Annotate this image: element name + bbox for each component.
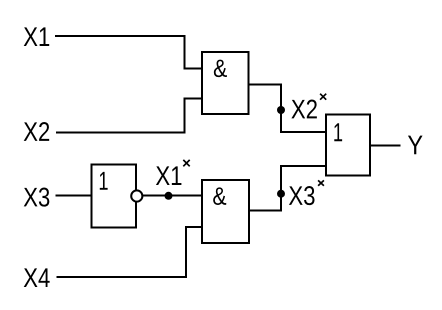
OR gate D4 symbol 1: [334, 123, 342, 141]
node label X3 superscript x: [289, 186, 315, 205]
NOT gate D2 inversion bubble: [131, 190, 142, 201]
output label Y: [408, 136, 423, 155]
wire X3 to NOT gate D2: [55, 195, 91, 197]
AND gate D1 body: [202, 52, 249, 114]
input label X3: [24, 188, 50, 207]
wire NOT gate output to AND gate D3 input 1: [143, 195, 203, 197]
NOT gate D2 symbol 1: [100, 172, 108, 190]
input label X2: [24, 122, 49, 141]
wire OR gate output to Y: [370, 145, 400, 147]
wire AND gate D1 output to OR gate input 1: [249, 85, 326, 133]
AND gate D3 body: [202, 180, 249, 243]
wire X2 to AND gate D1 input 2: [56, 99, 202, 133]
wire X4 to AND gate D3 input 2: [56, 227, 202, 277]
wire X1 to AND gate D1 input 1: [55, 36, 202, 68]
node label X1 superscript x: [156, 166, 182, 185]
input label X4: [24, 268, 50, 287]
AND gate D1 symbol &: [214, 60, 227, 78]
junction node X1*: [165, 192, 173, 200]
wire AND gate D3 output to OR gate input 2: [249, 166, 326, 210]
junction node X3*: [277, 190, 285, 198]
OR gate D4 body: [326, 114, 370, 175]
input label X1: [24, 27, 50, 46]
node label X2 superscript x: [291, 100, 316, 119]
junction node X2*: [277, 106, 285, 114]
AND gate D3 symbol &: [213, 187, 226, 205]
NOT gate D2 body: [91, 164, 136, 227]
